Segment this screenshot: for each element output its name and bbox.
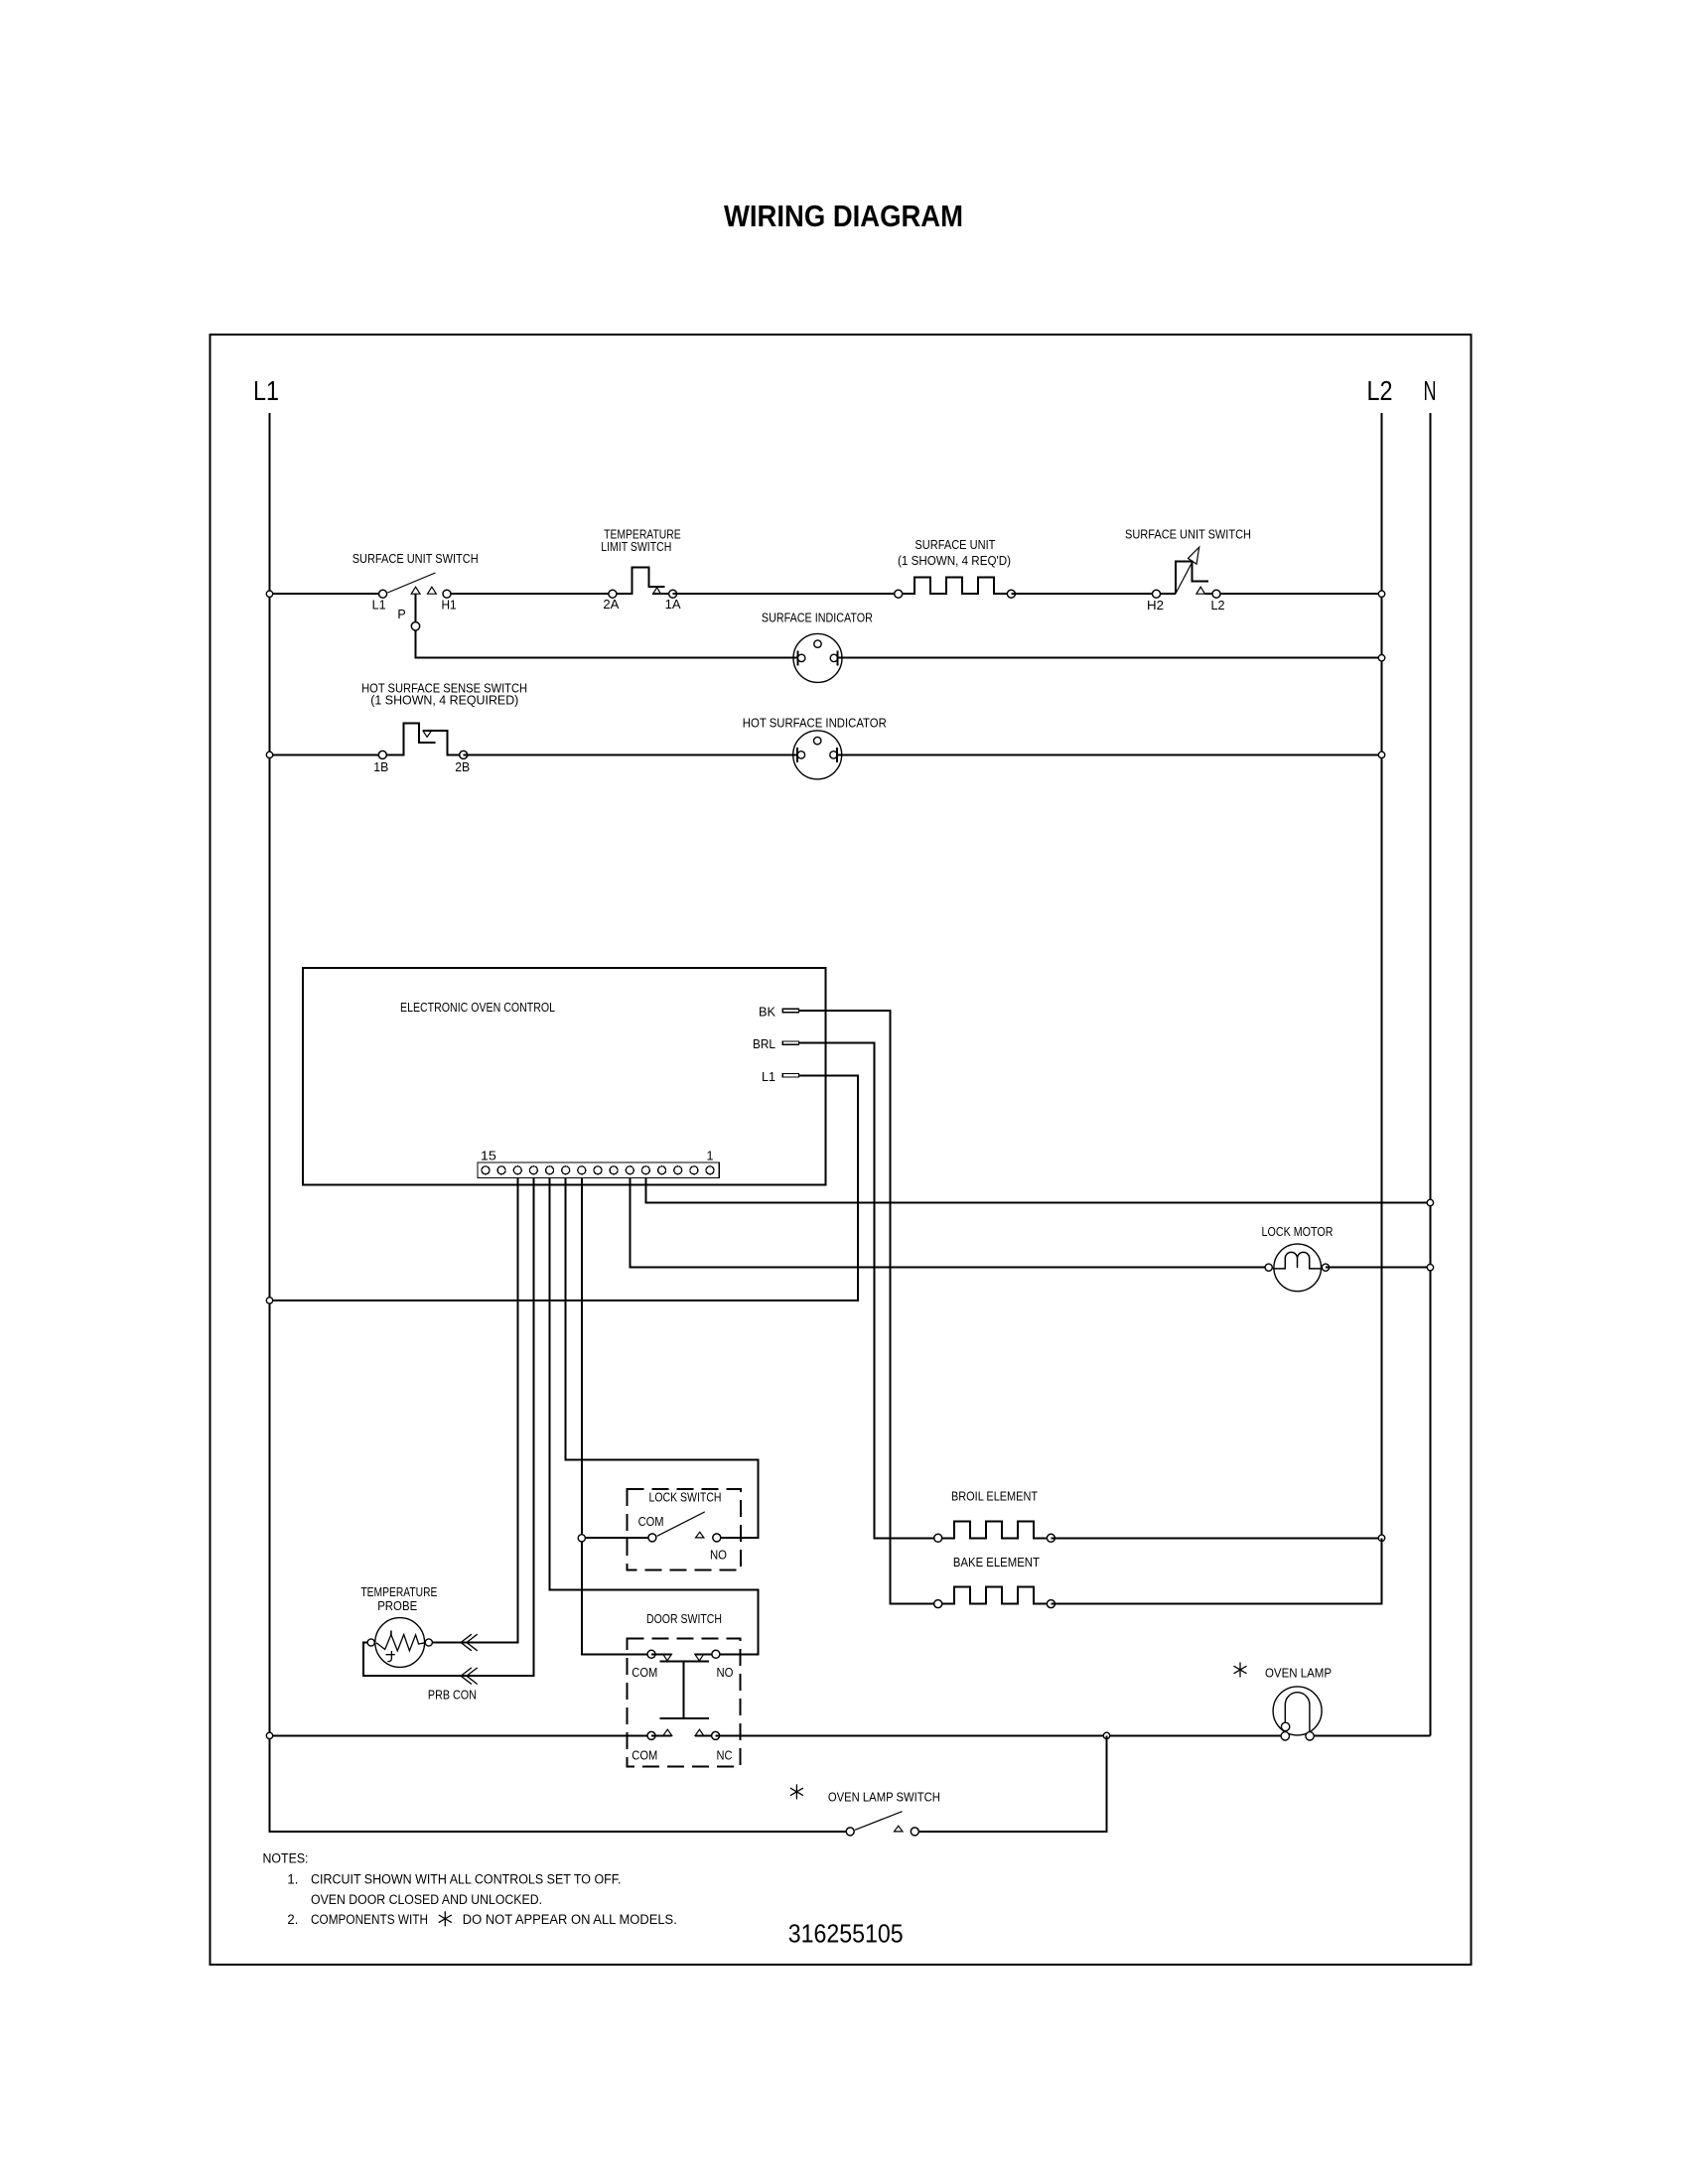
probe connector chevron upper outer [467,1634,478,1651]
svg-text:BAKE ELEMENT: BAKE ELEMENT [953,1556,1040,1570]
svg-text:NC: NC [717,1748,733,1762]
switch S2 body flag [1176,562,1208,595]
wire surface unit to surface unit switch S2 [1011,593,1156,595]
terminal circle surface unit left [895,590,903,598]
terminal circle H1 (S1) [443,590,451,598]
lock switch throw triangle [696,1532,704,1538]
temperature probe left terminal [367,1639,374,1646]
door switch lower wire NC side [695,1734,716,1736]
broil element resistor [938,1521,1052,1538]
surface indicator left terminal circle [798,654,805,661]
hot surface indicator lamp body [793,731,842,779]
svg-text:PROBE: PROBE [377,1599,417,1613]
pin 10 wire to lock switch NO [566,1178,759,1538]
svg-text:LOCK SWITCH: LOCK SWITCH [649,1491,722,1505]
wire oven lamp to N bus [1310,1734,1430,1736]
temperature probe tick mark [390,1631,392,1636]
wire S2 L2 to L2 bus [1205,593,1382,595]
lock motor body [1274,1244,1322,1292]
door switch box [627,1638,740,1766]
temperature probe thermistor zigzag [376,1635,425,1651]
svg-text:COMPONENTS WITH: COMPONENTS WITH [311,1912,428,1927]
svg-text:BROIL ELEMENT: BROIL ELEMENT [951,1490,1038,1504]
svg-text:LIMIT SWITCH: LIMIT SWITCH [601,540,671,554]
svg-text:WIRING DIAGRAM: WIRING DIAGRAM [724,200,963,233]
lock motor coil [1273,1252,1322,1269]
svg-text:H1: H1 [442,599,457,613]
wire oven lamp switch bypass [914,1735,1106,1832]
svg-text:COM: COM [638,1515,664,1529]
svg-text:L1: L1 [253,375,279,406]
junction L1 hot surface row [266,751,272,757]
wire door switch NC to N bus [716,1734,1286,1736]
wire door switch lower row from L1 [270,1734,652,1736]
terminal circle 2A [609,590,617,598]
svg-text:COM: COM [632,1748,657,1762]
terminal L1 spade [782,1074,798,1077]
bake element resistor [938,1587,1052,1604]
oven lamp left terminal [1281,1732,1289,1740]
wire L2 bus vertical [1381,413,1383,1604]
lock motor right terminal [1322,1264,1329,1271]
temperature probe hook [386,1651,395,1662]
svg-text:(1 SHOWN, 4 REQ'D): (1 SHOWN, 4 REQ'D) [898,554,1011,568]
wire L1 bus vertical [270,413,851,1832]
svg-text:L1: L1 [372,599,386,613]
lock switch NO terminal [713,1534,721,1542]
junction L2 hot surface row [1378,751,1384,757]
svg-text:2.: 2. [287,1912,298,1927]
door switch upper NO terminal [712,1650,720,1658]
hot surface sense switch upper ledge [423,731,464,754]
surface indicator right terminal circle [830,654,837,661]
svg-text:NO: NO [717,1666,734,1680]
pin 9 wire to door switch COM [582,1178,651,1655]
terminal circle L1 (S1) [379,590,387,598]
terminal circle surface unit right [1007,590,1015,598]
wire BK to bake element [799,1011,938,1604]
svg-text:316255105: 316255105 [788,1919,904,1949]
junction L1 top row [266,591,272,597]
EOC terminal strip [478,1162,719,1178]
door switch lower contact triangle left [663,1729,672,1735]
pin 5 wire to N bus [645,1178,1430,1203]
electronic oven control box U1 [303,968,826,1185]
hot surface sense switch contact triangle [423,731,431,737]
svg-text:1: 1 [707,1150,714,1163]
surface indicator top terminal circle [814,640,821,647]
terminal circle 1A [669,590,677,598]
junction L1 door switch row [266,1732,272,1738]
svg-text:2B: 2B [455,760,470,774]
svg-text:P: P [397,608,405,621]
wire 1A to surface unit [673,593,899,595]
oven lamp right terminal [1306,1732,1314,1740]
junction L2 broil row [1378,1535,1384,1541]
hot surface indicator left terminal circle [797,751,804,758]
probe connector chevron lower inner [461,1668,472,1685]
wire 2B to hot surface indicator [464,753,797,755]
oven lamp left leg circle [1281,1722,1289,1730]
lock switch box [627,1489,740,1570]
terminal circle H2 [1153,590,1161,598]
svg-text:PRB CON: PRB CON [428,1689,477,1703]
wire broil element to L2 bus [1051,1537,1381,1539]
door switch lower COM terminal [647,1731,655,1739]
switch S2 throw triangle [1196,587,1205,594]
bake element right terminal [1047,1600,1055,1608]
pin 12 wire to temperature probe return [363,1178,533,1677]
pin 11 wire to door switch NO [550,1178,759,1655]
oven lamp filament loop [1285,1693,1310,1731]
door switch actuator lower bar [659,1717,709,1719]
junction N lock motor row [1427,1265,1433,1271]
svg-text:N: N [1424,375,1437,406]
hot surface indicator left terminal bar [796,748,798,762]
door switch actuator upper bar [659,1660,709,1662]
wire S1 H1 to temperature limit switch [447,593,613,595]
door switch upper contact triangle left [663,1654,672,1661]
wire surface indicator to L2 bus [837,657,1381,659]
door switch lower NC terminal [712,1731,720,1739]
wire hot surface row L1 to 1B [270,753,383,755]
svg-text:2A: 2A [603,598,620,612]
door switch lower wire COM side [651,1734,672,1736]
oven lamp asterisk mark [1234,1663,1247,1678]
wire BRL to broil element [799,1043,938,1539]
svg-text:OVEN DOOR CLOSED AND UNLOCKED.: OVEN DOOR CLOSED AND UNLOCKED. [311,1892,542,1907]
svg-text:L2: L2 [1367,375,1393,406]
svg-text:COM: COM [632,1666,657,1680]
wire triangle to 1A [652,593,672,595]
lock switch COM terminal [648,1534,656,1542]
svg-text:1.: 1. [287,1871,298,1886]
svg-text:BRL: BRL [753,1037,775,1051]
hot surface indicator right terminal bar [836,748,838,762]
oven lamp body [1273,1687,1322,1735]
temperature limit switch contact triangle [653,588,661,594]
broil element left terminal [934,1534,942,1542]
svg-text:DO NOT APPEAR ON ALL MODELS.: DO NOT APPEAR ON ALL MODELS. [463,1912,677,1927]
wire H2 to S2 [1157,593,1177,595]
terminal circle 2B [460,751,468,758]
svg-text:NO: NO [710,1548,727,1562]
temperature probe right terminal [425,1639,432,1646]
junction oven lamp switch bypass tap [1103,1732,1109,1738]
wire P dropdown to surface indicator row [416,594,798,658]
surface indicator right terminal bar [836,650,838,665]
svg-text:LOCK MOTOR: LOCK MOTOR [1262,1225,1334,1239]
oven lamp switch arm [855,1812,903,1831]
svg-text:HOT SURFACE INDICATOR: HOT SURFACE INDICATOR [743,717,887,731]
hot surface sense switch body [382,724,435,755]
pin 13 wire to temperature probe [429,1178,518,1643]
door switch upper wire NO side [695,1653,716,1655]
svg-text:OVEN LAMP: OVEN LAMP [1265,1666,1332,1680]
svg-text:BK: BK [759,1005,776,1019]
surface unit heating element resistor [899,577,1012,594]
terminal circle P [411,622,419,630]
switch S2 arrow head [1189,547,1199,564]
svg-text:(1 SHOWN, 4 REQUIRED): (1 SHOWN, 4 REQUIRED) [370,694,518,708]
svg-text:1A: 1A [665,598,682,612]
svg-text:1B: 1B [373,760,388,774]
svg-text:SURFACE UNIT SWITCH: SURFACE UNIT SWITCH [352,552,479,566]
wire lock motor to N bus [1326,1267,1430,1269]
switch S1 pole triangle P [411,587,420,594]
bake element left terminal [934,1600,942,1608]
junction L1 EOC wire [266,1297,272,1303]
temperature probe body [375,1618,425,1668]
door switch upper contact triangle right [695,1654,704,1661]
temperature limit switch body [613,568,665,595]
wire top row L1 to surface unit switch S1 [270,593,383,595]
wire lock switch COM tap [582,1537,652,1539]
strip pin circles 15..1 [482,1166,714,1174]
terminal BK spade [782,1009,798,1012]
note 2 asterisk mark [439,1911,452,1926]
door switch actuator stem [683,1661,685,1718]
probe connector chevron upper inner [461,1634,472,1651]
oven lamp switch asterisk mark [790,1784,803,1799]
switch S2 arm [1176,561,1193,594]
switch S1 throw triangle [428,587,437,594]
switch S1 arm [387,573,435,593]
surface indicator lamp body [793,633,842,682]
junction L2 top row [1378,591,1384,597]
terminal BRL spade [782,1041,798,1044]
svg-text:15: 15 [481,1150,496,1163]
svg-text:NOTES:: NOTES: [263,1851,309,1866]
pin 6 wire to lock motor [630,1178,1268,1268]
svg-text:L1: L1 [762,1070,775,1084]
border frame [211,335,1472,1965]
wire N bus vertical [1429,413,1431,1736]
probe connector chevron lower outer [467,1668,478,1685]
svg-text:CIRCUIT SHOWN WITH ALL CONTROL: CIRCUIT SHOWN WITH ALL CONTROLS SET TO O… [311,1871,622,1886]
terminal circle L2 (S2) [1212,590,1220,598]
svg-text:OVEN LAMP SWITCH: OVEN LAMP SWITCH [828,1791,940,1805]
svg-text:L2: L2 [1211,599,1225,613]
broil element right terminal [1047,1534,1055,1542]
oven lamp switch right terminal [911,1828,918,1836]
svg-text:SURFACE INDICATOR: SURFACE INDICATOR [762,612,873,625]
junction lock switch tap on pin9 wire [578,1535,585,1542]
svg-text:TEMPERATURE: TEMPERATURE [360,1585,437,1599]
svg-text:SURFACE UNIT SWITCH: SURFACE UNIT SWITCH [1125,528,1251,542]
door switch lower contact triangle right [695,1729,704,1735]
lock motor left terminal [1265,1264,1272,1271]
terminal circle 1B [378,751,386,758]
surface indicator left terminal bar [796,650,798,665]
wire bake element to L2 bus [1051,1538,1381,1603]
svg-text:ELECTRONIC OVEN CONTROL: ELECTRONIC OVEN CONTROL [400,1001,555,1015]
hot surface indicator right terminal circle [830,751,837,758]
junction N pin5 wire [1427,1199,1433,1205]
wire EOC L1 to L1 bus [270,1075,858,1300]
lock switch arm [657,1512,705,1536]
svg-text:H2: H2 [1147,599,1164,613]
svg-text:SURFACE UNIT: SURFACE UNIT [914,538,995,552]
oven lamp switch left terminal [846,1828,854,1836]
svg-text:DOOR SWITCH: DOOR SWITCH [646,1612,722,1626]
wire hot surface indicator to L2 bus [837,753,1382,755]
oven lamp switch throw triangle [895,1826,904,1832]
hot surface indicator top terminal circle [814,737,821,744]
junction L2 surface indicator row [1378,655,1384,661]
door switch upper COM terminal [647,1650,655,1658]
door switch upper wire COM side [651,1653,671,1655]
